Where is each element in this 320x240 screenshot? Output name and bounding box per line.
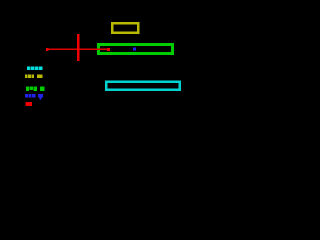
node B (blue pad inside U2): [133, 48, 136, 51]
component U2 (green outline): [98, 44, 172, 53]
label net2 (green text): [26, 86, 44, 90]
component U1 (yellow outline): [112, 23, 138, 33]
label value1 (yellow text): [25, 75, 43, 78]
pin 1 arrowhead (right wire terminal): [107, 48, 110, 51]
label value2 (blue text): [25, 94, 43, 100]
component U3 (cyan outline): [106, 82, 180, 90]
wire: [47, 49, 109, 51]
pin marker (cursor crosshair tick): [77, 34, 79, 61]
component R1 (red filled pad): [25, 102, 32, 106]
label net1 (cyan text): [27, 67, 42, 71]
node A (left wire terminal dot): [46, 48, 49, 51]
